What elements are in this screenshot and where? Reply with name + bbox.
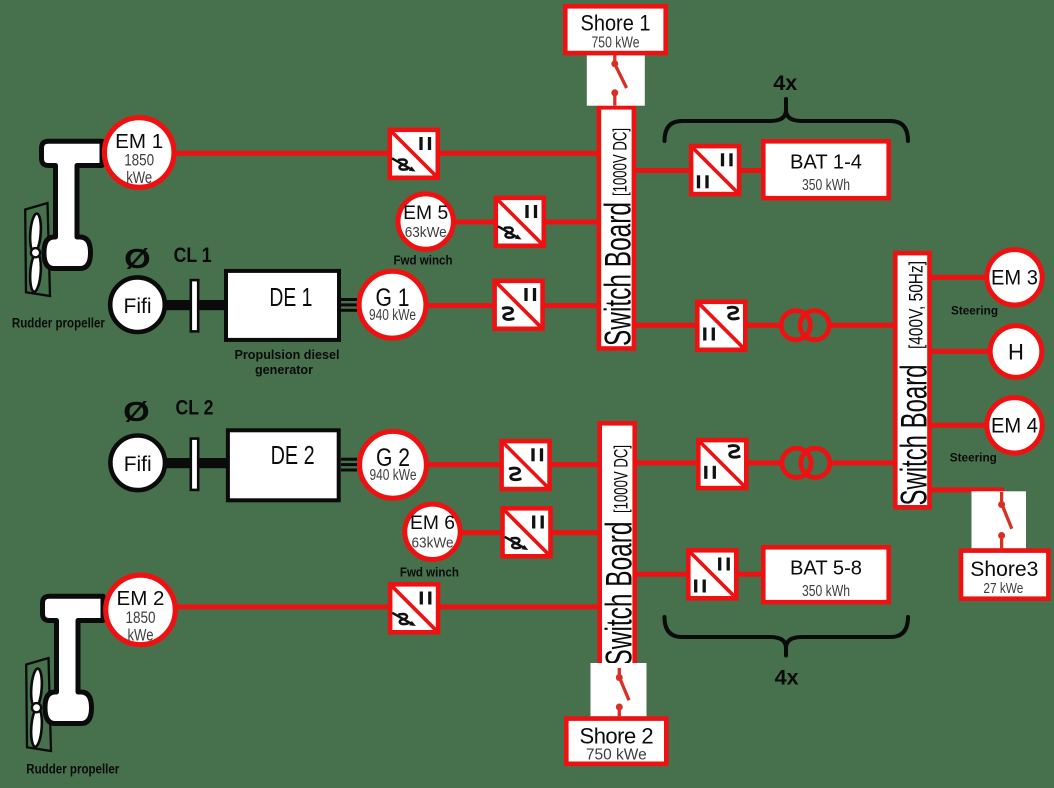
- svg-text:CL 1: CL 1: [174, 244, 212, 267]
- svg-text:750 kWe: 750 kWe: [592, 35, 640, 52]
- wire switchboard1 to BAT converter to BAT 1-4: [616, 168, 765, 173]
- wire switchboard2 to inverter to transformer T2: [616, 460, 780, 465]
- wire switchboard 400V to H: [928, 349, 992, 354]
- svg-text:kWe: kWe: [128, 626, 154, 644]
- svg-text:750 kWe: 750 kWe: [586, 747, 647, 764]
- svg-text:4x: 4x: [775, 666, 799, 689]
- svg-text:940 kWe: 940 kWe: [370, 467, 417, 484]
- svg-text:EM 2: EM 2: [117, 588, 165, 610]
- svg-text:Fifi: Fifi: [124, 295, 152, 318]
- rudder plane quad 1: [25, 203, 50, 296]
- svg-text:Shore 2: Shore 2: [580, 724, 654, 749]
- svg-text:Steering: Steering: [950, 452, 997, 464]
- svg-text:EM 6: EM 6: [410, 513, 455, 534]
- svg-text:[1000V DC]: [1000V DC]: [610, 445, 632, 513]
- svg-text:kWe: kWe: [126, 169, 152, 187]
- svg-text:Rudder propeller: Rudder propeller: [26, 762, 120, 777]
- motor EM3: [987, 250, 1042, 305]
- svg-text:EM 5: EM 5: [403, 203, 448, 224]
- wire EM5 to converter to switchboard1: [425, 220, 616, 225]
- svg-text:1850: 1850: [124, 152, 154, 170]
- converter EM5 (DC / variable AC): [496, 198, 544, 246]
- svg-text:27 kWe: 27 kWe: [983, 580, 1023, 597]
- battery bank BAT 1-4: [763, 141, 888, 198]
- wire switchboard1 to inverter to transformer T1: [616, 323, 779, 328]
- rudder propeller 1 (top): [25, 141, 102, 296]
- shore 2 box: [566, 719, 666, 764]
- propeller hub 2: [32, 703, 41, 712]
- svg-text:EM 1: EM 1: [115, 131, 163, 153]
- rudder plane quad 2: [26, 658, 51, 751]
- svg-text:[400V, 50Hz]: [400V, 50Hz]: [906, 261, 928, 349]
- switchboard 400V 50Hz: [894, 253, 935, 507]
- wire switchboard 400V to EM4: [928, 423, 990, 428]
- shaft DE1 to G1: [341, 300, 357, 311]
- svg-text:Shore3: Shore3: [970, 558, 1038, 581]
- svg-text:350 kWh: 350 kWh: [802, 177, 850, 194]
- converter inverter T2 (DC to AC): [698, 440, 746, 488]
- svg-text:EM 3: EM 3: [991, 267, 1038, 290]
- wire switchboard2 to BAT converter to BAT 5-8: [616, 572, 765, 577]
- wire G2 to converter to switchboard2: [428, 462, 616, 467]
- wire EM1 to converter to switchboard1: [140, 151, 616, 156]
- svg-text:H: H: [1008, 339, 1024, 364]
- fifi pump 1: [110, 277, 165, 332]
- breaker switch shore 1: [611, 55, 626, 106]
- svg-text:Shore 1: Shore 1: [581, 11, 651, 36]
- converter G1 (AC / DC rectifier): [495, 281, 543, 329]
- thruster pipe 2: [43, 596, 104, 723]
- wire EM6 to converter to switchboard2: [432, 530, 616, 535]
- motor EM5: [398, 194, 453, 249]
- rudder propeller 2 (bottom): [26, 596, 103, 751]
- converter BAT 5-8 (DC/DC): [688, 550, 736, 598]
- battery bank BAT 5-8: [763, 547, 888, 602]
- svg-text:350 kWh: 350 kWh: [802, 583, 850, 600]
- generator G2: [360, 431, 427, 498]
- white patch above shore 2: [591, 663, 647, 716]
- svg-text:EM 4: EM 4: [991, 415, 1038, 438]
- breaker switch shore 3: [998, 492, 1012, 548]
- fifi pump 2: [110, 436, 165, 491]
- switchboard 1 (1000V DC): [598, 107, 639, 348]
- shaft Fifi1 to DE1: [160, 300, 228, 310]
- switchboard 2 (1000V DC): [598, 423, 639, 666]
- propeller blade upper 2: [30, 668, 43, 708]
- breaker switch shore 2: [616, 668, 629, 716]
- shaft DE2 to G2: [341, 459, 357, 470]
- brace 4x (bottom): [665, 617, 909, 656]
- svg-text:Switch Board: Switch Board: [598, 202, 639, 346]
- svg-text:4x: 4x: [773, 72, 797, 95]
- svg-text:Ø: Ø: [123, 396, 150, 427]
- shore 3 box: [961, 551, 1048, 599]
- converter BAT 1-4 (DC/DC): [691, 146, 739, 194]
- motor EM4: [987, 398, 1042, 453]
- svg-text:CL 2: CL 2: [176, 396, 214, 419]
- svg-text:1850: 1850: [126, 609, 156, 627]
- white patch under shore 1: [587, 55, 645, 105]
- svg-text:[1000V DC]: [1000V DC]: [610, 128, 632, 196]
- diesel engine DE 1: [226, 271, 339, 340]
- wire G1 to converter to switchboard1: [428, 303, 616, 308]
- generator G1: [359, 271, 426, 338]
- wire transformer T2 to switchboard 400V: [833, 460, 899, 465]
- converter EM6 (DC / variable AC): [503, 508, 551, 556]
- propeller blade lower 2: [30, 707, 43, 747]
- svg-text:Switch Board: Switch Board: [598, 522, 639, 666]
- transformer T2: [782, 448, 830, 477]
- propeller hub 1: [31, 248, 40, 257]
- wire switchboard 400V to EM3: [928, 275, 990, 280]
- converter EM2 (DC / variable AC): [390, 584, 438, 632]
- svg-text:Switch Board: Switch Board: [894, 365, 935, 506]
- propeller blade lower 1: [29, 252, 42, 292]
- shaft Fifi2 to DE2: [160, 458, 228, 468]
- clutch 2: [191, 439, 198, 490]
- converter G2 (AC / DC rectifier): [502, 441, 550, 489]
- svg-text:Fifi: Fifi: [124, 453, 152, 476]
- converter EM1 (DC / variable AC): [390, 130, 438, 178]
- svg-text:Ø: Ø: [124, 243, 151, 274]
- svg-text:Rudder propeller: Rudder propeller: [12, 316, 106, 331]
- svg-text:BAT 1-4: BAT 1-4: [790, 151, 862, 173]
- svg-text:63kWe: 63kWe: [412, 534, 454, 551]
- motor EM6: [405, 504, 460, 559]
- svg-text:940 kWe: 940 kWe: [369, 307, 416, 324]
- svg-text:Fwd winch: Fwd winch: [400, 565, 459, 579]
- white patch above shore 3: [972, 491, 1027, 548]
- shore 1 box: [565, 6, 665, 53]
- wire transformer T1 to switchboard 400V: [832, 323, 899, 328]
- thruster pipe 1: [42, 141, 103, 268]
- converter inverter T1 (DC to AC): [697, 302, 745, 350]
- svg-text:DE 2: DE 2: [271, 440, 315, 470]
- harbour load H: [990, 326, 1042, 378]
- clutch 1: [191, 280, 198, 331]
- svg-text:BAT 5-8: BAT 5-8: [790, 557, 862, 579]
- svg-text:63kWe: 63kWe: [405, 224, 447, 241]
- svg-text:Propulsion diesel: Propulsion diesel: [235, 348, 340, 362]
- propeller blade upper 1: [29, 213, 42, 253]
- svg-text:generator: generator: [255, 363, 313, 377]
- svg-text:Steering: Steering: [951, 305, 998, 317]
- svg-text:DE 1: DE 1: [269, 282, 312, 312]
- svg-text:Fwd winch: Fwd winch: [394, 253, 453, 267]
- motor EM2: [106, 575, 176, 645]
- motor EM1: [104, 118, 174, 188]
- transformer T1: [781, 311, 829, 340]
- brace 4x (top): [665, 99, 909, 141]
- wire switchboard 400V to Shore3 switch: [928, 490, 1002, 493]
- wire EM2 to converter to switchboard2: [141, 604, 616, 609]
- diesel engine DE 2: [228, 430, 339, 500]
